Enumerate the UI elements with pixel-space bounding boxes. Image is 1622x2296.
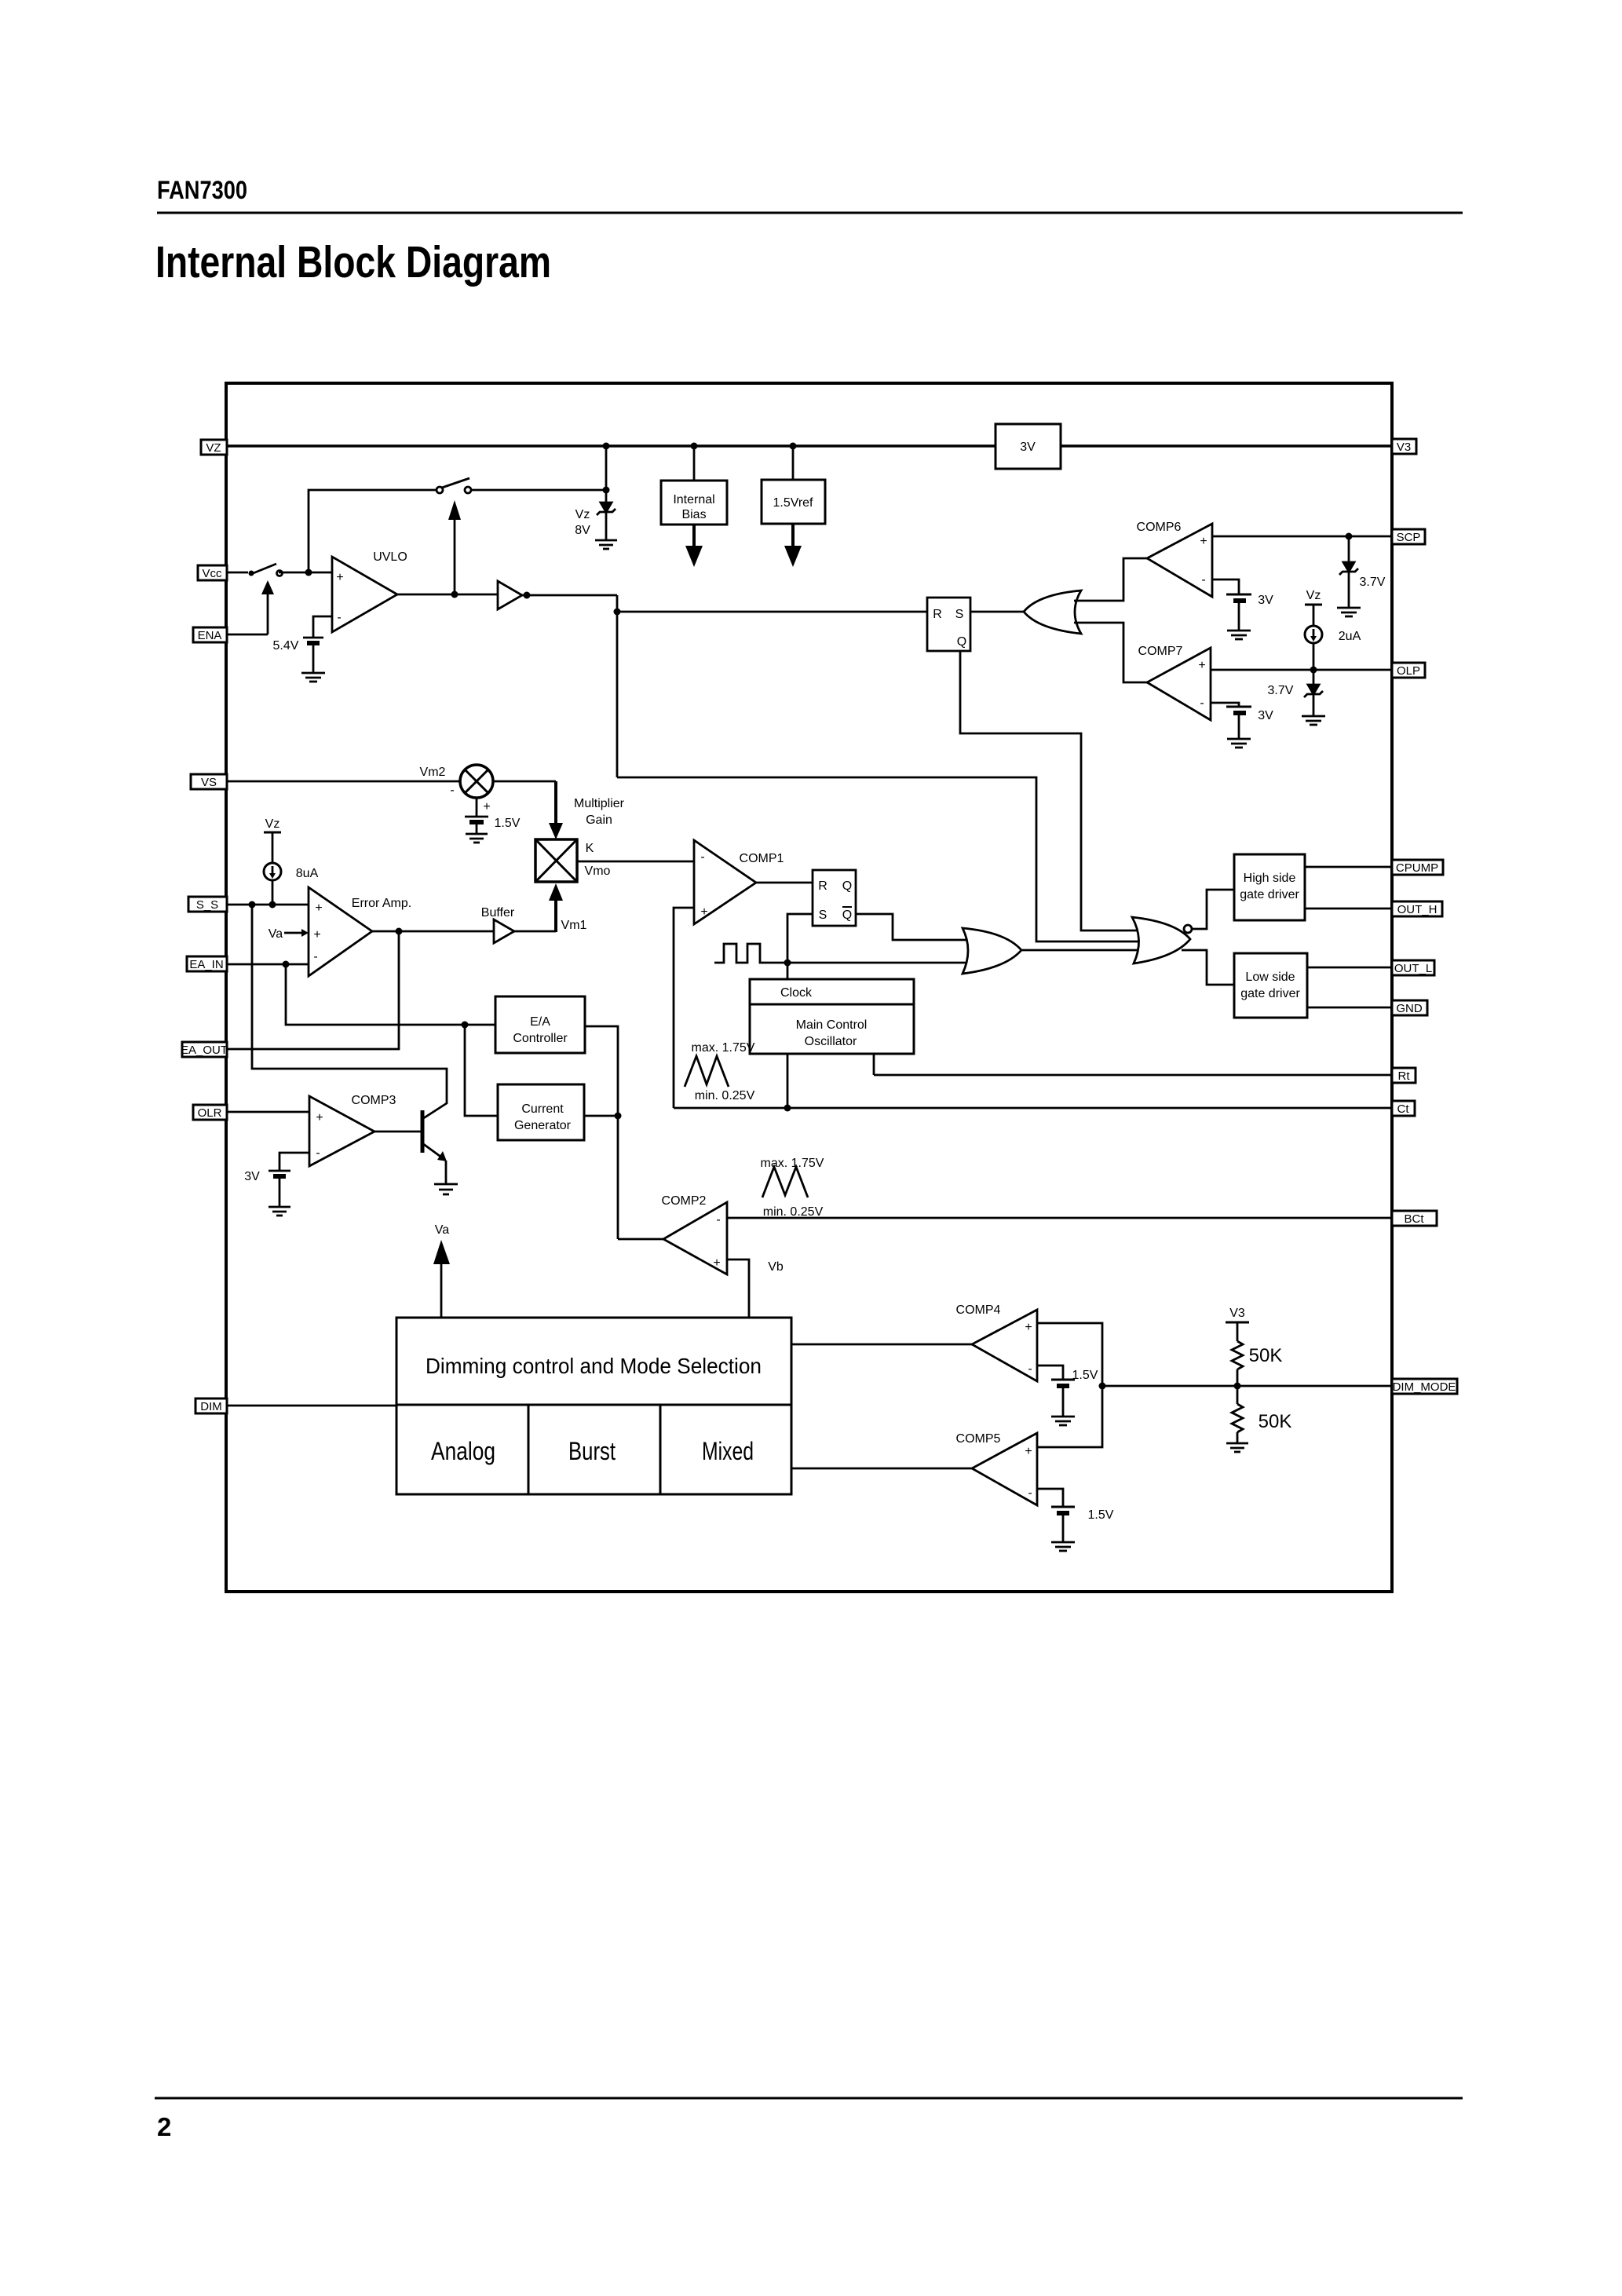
op-amp UVLO	[332, 557, 397, 632]
pulse waveform glyph	[714, 944, 787, 963]
svg-text:COMP6: COMP6	[1137, 521, 1182, 534]
svg-text:2: 2	[157, 2112, 171, 2141]
NOR gate	[1132, 917, 1190, 963]
block Clock / Main Control Oscillator	[750, 979, 914, 1054]
buffer triangle	[494, 919, 514, 943]
pin VS	[191, 774, 227, 789]
wire E/A Controller output	[585, 1026, 618, 1239]
pin SCP	[1392, 529, 1425, 544]
node junction on VZ line at x884	[691, 443, 698, 450]
svg-text:DIM_MODE: DIM_MODE	[1393, 1380, 1456, 1394]
wire EA_IN node to E/A Controller	[286, 964, 495, 1025]
svg-text:High side: High side	[1244, 872, 1296, 885]
wire SCP line to COMP6 plus	[1212, 536, 1392, 538]
svg-text:gate driver: gate driver	[1240, 888, 1299, 901]
svg-text:+: +	[1025, 1445, 1032, 1458]
ground below SCP zener	[1337, 607, 1361, 609]
svg-text:R: R	[818, 879, 827, 893]
IC outer boundary box	[226, 383, 1392, 1592]
battery 3V (COMP3)	[269, 1170, 290, 1172]
sawtooth waveform near COMP1	[685, 1056, 729, 1087]
svg-text:Generator: Generator	[514, 1119, 572, 1132]
wire OLP line	[1211, 669, 1392, 671]
regulator 3V box	[995, 424, 1061, 469]
svg-text:FAN7300: FAN7300	[157, 176, 247, 204]
pin EA_IN	[187, 956, 227, 971]
node junction on DIM_MODE wire	[1099, 1383, 1106, 1390]
node junction at clock line	[784, 960, 791, 967]
node junction on S_S line (8uA)	[269, 901, 276, 909]
svg-text:2uA: 2uA	[1339, 630, 1361, 643]
svg-text:max. 1.75V: max. 1.75V	[761, 1157, 824, 1170]
svg-text:SCP: SCP	[1397, 531, 1421, 544]
wire NOR output to low side driver	[1182, 950, 1234, 985]
svg-text:+: +	[1198, 659, 1205, 672]
svg-text:Vm2: Vm2	[420, 766, 446, 779]
node junction on SCP line	[1346, 533, 1353, 540]
svg-text:E/A: E/A	[530, 1015, 550, 1029]
comparator COMP7	[1147, 648, 1211, 720]
wire COMP7 output to OR1 bottom input	[1074, 623, 1147, 682]
pin OUT_L	[1392, 960, 1434, 975]
wire EA_IN pin to Error Amp minus	[227, 963, 309, 966]
switch S1 on Vcc	[249, 571, 254, 576]
pin S_S	[188, 897, 227, 912]
op-amp Error Amp	[309, 887, 372, 976]
svg-text:Vb: Vb	[768, 1260, 784, 1274]
comparator COMP5	[972, 1433, 1037, 1505]
wire U2 Q output down to NOR	[960, 651, 1154, 930]
svg-text:V3: V3	[1229, 1307, 1245, 1320]
block E/A Controller	[495, 996, 585, 1053]
svg-text:VZ: VZ	[206, 441, 221, 455]
wire VS pin to mixer	[227, 781, 460, 783]
svg-text:Main Control: Main Control	[796, 1018, 868, 1032]
overline of Qbar U3	[842, 906, 852, 908]
svg-text:-: -	[716, 1213, 720, 1227]
wire to R input of RS latch U2	[617, 611, 927, 613]
ground below zener Vz 8V	[595, 539, 617, 542]
inverter after UVLO	[498, 581, 522, 609]
pin ENA	[193, 627, 227, 642]
pin OLP	[1392, 663, 1425, 678]
wire UVLO output	[397, 594, 498, 596]
wire down to NOR path	[616, 595, 619, 777]
svg-text:S: S	[819, 909, 827, 922]
wire Vcc pin to switch	[227, 572, 248, 574]
wire UVLO path to NOR	[617, 777, 1154, 941]
svg-text:3V: 3V	[244, 1170, 260, 1183]
svg-text:V3: V3	[1397, 441, 1411, 454]
block 1.5Vref	[792, 446, 795, 480]
svg-text:DIM: DIM	[200, 1400, 222, 1413]
svg-text:Internal: Internal	[673, 493, 714, 506]
pin OLR	[193, 1105, 227, 1120]
transistor Q1	[374, 1131, 421, 1133]
svg-text:8uA: 8uA	[296, 867, 319, 880]
svg-text:R: R	[933, 608, 942, 621]
svg-text:-: -	[700, 850, 704, 864]
resistor 50K lower	[1237, 1386, 1239, 1404]
node junction at Current Generator output	[615, 1113, 622, 1120]
svg-text:50K: 50K	[1259, 1411, 1292, 1432]
wire GND	[1307, 1007, 1392, 1009]
pin EA_OUT	[182, 1042, 227, 1057]
svg-text:3V: 3V	[1258, 594, 1273, 607]
pin Rt	[1392, 1068, 1416, 1083]
wire COMP7 minus to 3V battery	[1211, 703, 1239, 707]
wire clock node into Clock box	[787, 963, 789, 979]
svg-text:-: -	[1200, 696, 1204, 710]
wire multiplier output to COMP1 minus	[577, 861, 694, 863]
svg-text:Vcc: Vcc	[202, 567, 222, 580]
svg-text:COMP3: COMP3	[352, 1094, 396, 1107]
svg-text:K: K	[586, 842, 594, 855]
ground below COMP4 battery	[1051, 1416, 1075, 1418]
svg-text:3.7V: 3.7V	[1268, 684, 1294, 697]
svg-text:50K: 50K	[1249, 1345, 1283, 1366]
wire oscillator to Rt line	[873, 1054, 875, 1075]
svg-text:-: -	[316, 1146, 320, 1160]
svg-text:-: -	[313, 950, 317, 963]
wire oscillator to Ct line	[787, 1054, 789, 1108]
battery 3V (COMP7)	[1226, 706, 1251, 708]
wire from VZ line down to clamp node	[605, 446, 608, 490]
wire dimming box to COMP5	[791, 1468, 972, 1470]
wire clock node to OR2 bottom input	[787, 962, 981, 964]
arrow ENA to switch	[267, 594, 269, 634]
V3 supply tap	[1226, 1322, 1249, 1324]
current source 8uA from Vz	[264, 832, 281, 834]
arrow below 1.5Vref	[791, 524, 795, 548]
svg-text:Ct: Ct	[1397, 1102, 1410, 1116]
wire Error Amp output to Buffer	[372, 930, 494, 933]
svg-text:min. 0.25V: min. 0.25V	[695, 1089, 755, 1102]
node junction at 50K divider	[1234, 1383, 1241, 1390]
wire OUT_L	[1307, 967, 1392, 969]
ground below OLP zener	[1302, 715, 1325, 718]
svg-text:Vz: Vz	[575, 508, 590, 521]
svg-text:EA_IN: EA_IN	[189, 958, 223, 971]
pin DIM	[195, 1398, 227, 1413]
svg-text:Gain: Gain	[586, 813, 612, 827]
svg-text:Q: Q	[842, 879, 852, 893]
svg-text:3V: 3V	[1258, 709, 1273, 722]
svg-text:COMP4: COMP4	[956, 1303, 1001, 1317]
svg-text:Vmo: Vmo	[585, 865, 611, 878]
svg-text:UVLO: UVLO	[373, 550, 407, 564]
svg-text:3V: 3V	[1020, 441, 1036, 454]
wire inverter output	[522, 594, 617, 597]
svg-text:+: +	[1025, 1321, 1032, 1334]
svg-text:Current: Current	[521, 1102, 564, 1116]
comparator COMP2	[663, 1202, 727, 1274]
svg-text:-: -	[1028, 1486, 1032, 1500]
svg-text:+: +	[315, 901, 322, 915]
svg-text:min. 0.25V: min. 0.25V	[763, 1205, 824, 1219]
wire mixer to multiplier	[493, 781, 556, 783]
svg-text:+: +	[1200, 535, 1207, 548]
pin Vcc	[198, 565, 227, 580]
svg-text:gate driver: gate driver	[1240, 987, 1300, 1000]
ground below COMP7 battery	[1227, 738, 1251, 740]
svg-text:BCt: BCt	[1404, 1212, 1424, 1226]
wire OR1 output to S input	[970, 611, 1024, 613]
pin OUT_H	[1392, 901, 1442, 916]
battery 1.5V (COMP4)	[1051, 1379, 1075, 1381]
node junction at Vz clamp	[603, 487, 610, 494]
node junction after inverter	[524, 592, 531, 599]
svg-text:Vm1: Vm1	[561, 919, 587, 932]
wire NOR output to high side driver	[1192, 890, 1234, 929]
wire Rt line	[874, 1074, 1392, 1077]
pin CPUMP	[1392, 860, 1443, 875]
wire UVLO minus to battery	[313, 616, 332, 638]
svg-text:-: -	[450, 784, 454, 797]
node junction on E/A input wire	[462, 1022, 469, 1029]
svg-text:1.5V: 1.5V	[1072, 1369, 1098, 1382]
wire DIM pin	[227, 1405, 396, 1407]
svg-text:1.5V: 1.5V	[1088, 1508, 1114, 1522]
pin VZ	[201, 440, 227, 455]
block High side gate driver	[1234, 854, 1305, 920]
svg-text:+: +	[713, 1256, 720, 1270]
svg-text:S: S	[955, 608, 964, 621]
wire EA_OUT pin	[227, 931, 399, 1049]
OR gate OR1 (output points left)	[1024, 590, 1081, 634]
comparator COMP6	[1147, 524, 1212, 597]
wire OR2 output to NOR input	[1021, 949, 1154, 952]
node junction on Error Amp output	[396, 928, 403, 935]
arrow into multiplier top	[554, 781, 557, 824]
svg-text:Internal Block Diagram: Internal Block Diagram	[155, 237, 551, 287]
wire OLR pin to COMP3	[227, 1111, 309, 1113]
zener 3.7V on OLP	[1313, 670, 1315, 685]
svg-text:Controller: Controller	[513, 1032, 568, 1045]
svg-text:Va: Va	[435, 1223, 449, 1237]
svg-text:5.4V: 5.4V	[273, 639, 299, 653]
svg-text:max. 1.75V: max. 1.75V	[692, 1041, 755, 1055]
ground below 1.5V battery	[466, 833, 488, 835]
svg-text:GND: GND	[1396, 1002, 1423, 1015]
wire COMP6 minus to 3V battery	[1212, 579, 1239, 594]
wire COMP6 output to OR1 top input	[1074, 558, 1147, 601]
wire BCt line to COMP2 minus	[727, 1217, 1392, 1219]
svg-text:1.5Vref: 1.5Vref	[773, 496, 814, 510]
node junction on VZ line at x772	[603, 443, 610, 450]
svg-text:Analog: Analog	[431, 1437, 495, 1465]
zener 3.7V on SCP	[1348, 536, 1350, 562]
wire ENA pin	[227, 634, 268, 636]
block Low side gate driver	[1234, 953, 1307, 1018]
svg-text:Va: Va	[269, 927, 283, 941]
svg-text:-: -	[1201, 573, 1205, 587]
ground below COMP5 battery	[1051, 1541, 1075, 1544]
svg-text:3.7V: 3.7V	[1360, 576, 1386, 589]
svg-text:CPUMP: CPUMP	[1396, 861, 1438, 875]
battery 3V (COMP6)	[1226, 594, 1251, 596]
wire S input of U3 from clock node	[787, 914, 813, 963]
wire dimming box to COMP4	[791, 1344, 972, 1346]
svg-text:Multiplier: Multiplier	[574, 797, 625, 810]
svg-text:OUT_L: OUT_L	[1394, 962, 1432, 975]
svg-text:Vz: Vz	[265, 817, 280, 831]
node junction to R input	[614, 609, 621, 616]
svg-text:VS: VS	[201, 776, 217, 789]
ground below COMP3 battery	[269, 1206, 290, 1208]
node junction on UVLO output	[451, 591, 458, 598]
node junction on S_S line (left)	[249, 901, 256, 909]
wire Ct line	[674, 1107, 1392, 1110]
svg-text:OUT_H: OUT_H	[1397, 903, 1438, 916]
wire S_S node down to transistor collector	[252, 905, 447, 1104]
svg-text:+: +	[313, 928, 320, 941]
comparator COMP1	[694, 840, 756, 924]
block Dimming control and Mode Selection	[396, 1318, 791, 1494]
svg-text:S_S: S_S	[196, 898, 218, 912]
wire COMP5 plus to DIM_MODE node	[1037, 1386, 1102, 1447]
block Internal Bias	[693, 446, 696, 481]
svg-text:COMP7: COMP7	[1138, 645, 1183, 658]
comparator COMP3	[309, 1096, 374, 1166]
svg-text:+: +	[316, 1111, 323, 1124]
battery 1.5V below mixer	[476, 798, 478, 817]
arrow UVLO output to switch S2	[454, 518, 456, 594]
wire buffer output up to multiplier	[514, 930, 556, 933]
svg-text:+: +	[483, 800, 490, 813]
svg-text:Dimming control and Mode Selec: Dimming control and Mode Selection	[426, 1354, 762, 1378]
svg-text:+: +	[336, 571, 343, 584]
svg-text:Clock: Clock	[780, 986, 813, 1000]
svg-text:8V: 8V	[575, 524, 590, 537]
svg-text:COMP1: COMP1	[740, 852, 784, 865]
svg-text:Bias: Bias	[681, 508, 706, 521]
pin Ct	[1392, 1101, 1415, 1116]
switch S2	[437, 487, 443, 493]
node junction on Ct line	[784, 1105, 791, 1112]
svg-text:Buffer: Buffer	[481, 906, 515, 919]
wire Current Generator output	[584, 1115, 618, 1117]
svg-text:Q: Q	[842, 909, 852, 922]
wire switch to clamp node	[472, 489, 606, 492]
node junction on VZ line at x1010	[790, 443, 797, 450]
ground below 5.4V battery	[301, 672, 325, 675]
svg-text:1.5V: 1.5V	[495, 817, 521, 830]
flip-flop U2 RS latch	[927, 598, 970, 651]
svg-text:Rt: Rt	[1398, 1069, 1411, 1083]
footer rule	[155, 2097, 1463, 2100]
svg-text:COMP5: COMP5	[956, 1432, 1001, 1446]
mixer Vm2 (circle with X)	[460, 765, 493, 798]
wire OUT_H	[1305, 908, 1392, 910]
wire switch feed from Vcc node	[309, 490, 437, 572]
svg-text:EA_OUT: EA_OUT	[181, 1044, 228, 1057]
svg-text:Low side: Low side	[1245, 971, 1295, 984]
pin BCt	[1392, 1211, 1437, 1226]
wire COMP4 minus to 1.5V battery	[1037, 1366, 1063, 1380]
wire CPUMP	[1305, 866, 1392, 868]
svg-text:OLP: OLP	[1397, 664, 1420, 678]
wire VZ bus line	[227, 444, 1392, 448]
wire COMP2 output	[618, 1238, 663, 1241]
wire S_S pin to Error Amp	[227, 904, 309, 906]
ground below Q1 emitter	[434, 1183, 458, 1186]
sawtooth waveform near COMP2	[762, 1167, 808, 1197]
wire Qbar of U3 to OR2 top input	[856, 914, 981, 940]
arrow Va into Error Amp	[284, 932, 302, 934]
svg-text:ENA: ENA	[198, 629, 222, 642]
pin GND	[1392, 1000, 1427, 1015]
wire COMP3 minus to 3V battery	[279, 1153, 309, 1171]
block Current Generator	[498, 1084, 584, 1140]
wire COMP1 output to RS latch U3	[756, 882, 813, 884]
multiplier K box	[535, 839, 577, 882]
node junction on Vcc wire	[305, 569, 312, 576]
svg-text:OLR: OLR	[198, 1106, 222, 1120]
svg-text:Oscillator: Oscillator	[805, 1035, 857, 1048]
battery 1.5V (COMP5)	[1051, 1506, 1075, 1508]
svg-text:+: +	[700, 905, 707, 919]
wire switch to UVLO input	[279, 572, 332, 574]
wire COMP2 plus (Vb)	[727, 1260, 749, 1318]
comparator COMP4	[972, 1310, 1037, 1381]
OR gate OR2	[963, 928, 1021, 974]
ground below COMP6 battery	[1227, 630, 1251, 632]
svg-text:COMP2: COMP2	[662, 1194, 707, 1208]
resistor 50K upper	[1232, 1341, 1243, 1369]
battery 5.4V	[303, 637, 323, 639]
pin DIM_MODE	[1392, 1379, 1457, 1394]
current source 2uA from Vz	[1305, 604, 1322, 606]
arrow below Internal Bias	[692, 525, 696, 548]
arrow Va from dimming box	[440, 1260, 443, 1318]
wire down to Current Generator input	[465, 1025, 498, 1116]
svg-text:-: -	[337, 611, 341, 624]
zener Vz 8V	[605, 490, 608, 503]
ground below 50K divider	[1226, 1442, 1248, 1445]
svg-text:Q: Q	[957, 635, 966, 649]
wire COMP5 minus to 1.5V battery	[1037, 1489, 1063, 1507]
wire COMP1 plus from Ct line	[674, 908, 694, 1108]
pin V3	[1392, 439, 1416, 454]
node junction on OLP line	[1310, 667, 1317, 674]
svg-text:-: -	[1028, 1362, 1032, 1376]
node junction on EA_IN line	[283, 961, 290, 968]
svg-text:Burst: Burst	[568, 1437, 616, 1465]
header rule	[157, 212, 1463, 214]
wire COMP4 plus to DIM_MODE	[1037, 1323, 1102, 1386]
svg-text:Error Amp.: Error Amp.	[352, 897, 411, 910]
flip-flop U3 RS latch	[813, 870, 856, 926]
wire DIM_MODE line	[1102, 1385, 1392, 1387]
arrow into multiplier bottom (Vm1)	[554, 899, 557, 932]
svg-text:Mixed: Mixed	[702, 1437, 754, 1465]
svg-text:Vz: Vz	[1306, 589, 1321, 602]
